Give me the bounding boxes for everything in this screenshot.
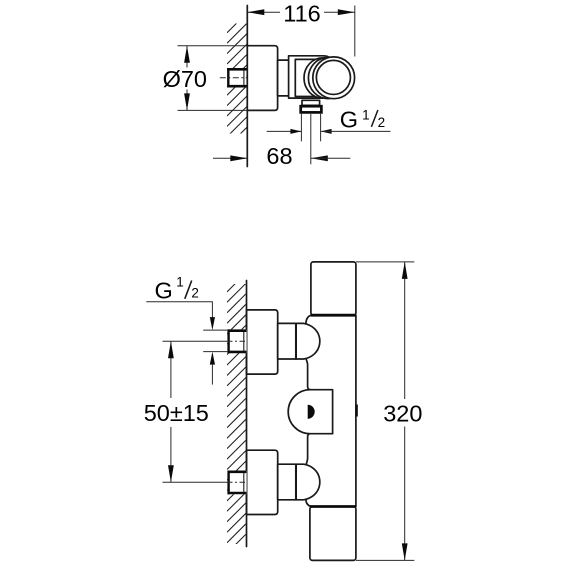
dimension 320 line + arrows xyxy=(404,262,406,399)
top inlet cone base edge (thick) xyxy=(295,323,297,360)
dimension 116 text xyxy=(280,3,324,22)
escutcheon flange (top view) xyxy=(247,46,277,111)
dimension 50±15 line + arrows xyxy=(170,341,172,398)
dimension 116 extension line (right) xyxy=(354,6,356,57)
svg-text:2: 2 xyxy=(378,115,386,130)
knob shoulder arc 2 xyxy=(308,57,347,98)
dimension Ø70 extension lines xyxy=(178,45,247,47)
dimension 116 arrow right xyxy=(338,9,355,15)
dimension 116 arrow left xyxy=(247,9,264,15)
mixer body mid section (front view) xyxy=(306,315,356,506)
dimension 116 line xyxy=(247,11,354,13)
nut centerline (top view) xyxy=(220,77,249,79)
valve backplate (top view) xyxy=(289,56,333,98)
top inlet escutcheon (front view) xyxy=(247,310,278,374)
outlet extension lines xyxy=(300,114,302,142)
svg-text:320: 320 xyxy=(383,400,422,426)
body cap separator thick line (top) xyxy=(311,314,356,317)
bottom inlet pipe (front view) xyxy=(278,464,296,500)
G 1/2 dimension arrows (top view) xyxy=(267,130,302,132)
wall line (top view) xyxy=(246,6,248,167)
outlet stub (top view) xyxy=(302,100,320,105)
svg-text:1: 1 xyxy=(362,107,370,122)
svg-text:1: 1 xyxy=(176,275,184,290)
dimension 320 text xyxy=(381,401,425,424)
knob outer circle xyxy=(313,57,355,99)
valve body (top view) xyxy=(295,59,330,96)
wall hatching (front view) xyxy=(227,273,246,564)
body top cap (front view) xyxy=(311,262,356,315)
dimension 68 line + arrows xyxy=(213,157,247,159)
outlet boss D-shape (front view) xyxy=(288,390,332,434)
union nut behind wall (top view) xyxy=(227,68,246,87)
bottom inlet union nut (front view) xyxy=(227,471,246,495)
top inlet pipe extension lines xyxy=(203,329,227,331)
wall line (front view) xyxy=(246,281,248,547)
svg-text:116: 116 xyxy=(283,0,320,26)
outlet centerline xyxy=(310,114,312,164)
bottom inlet centerline xyxy=(163,481,228,483)
connecting pipe (top view) xyxy=(278,60,290,96)
outlet thread nut (top view) xyxy=(301,106,322,112)
svg-text:2: 2 xyxy=(191,286,199,301)
bottom inlet escutcheon (front view) xyxy=(247,450,278,514)
top inlet union nut (front view) xyxy=(227,329,246,353)
top inlet cone dome (front view) xyxy=(296,323,320,359)
G 1/2 leader line (front view) xyxy=(146,302,212,318)
knob shoulder arc 1 xyxy=(304,58,342,98)
G 1/2 lower arrow (front view) xyxy=(210,352,215,365)
top inlet centerline xyxy=(163,340,228,342)
svg-text:G: G xyxy=(340,107,358,133)
knob inner circle xyxy=(316,60,350,94)
dimension 50±15 text xyxy=(143,401,210,424)
bottom inlet cone dome (front view) xyxy=(296,464,320,500)
top inlet pipe (front view) xyxy=(278,323,296,359)
dimension 320 extension lines xyxy=(356,261,414,263)
bottom inlet cone base edge (thick) xyxy=(295,464,297,501)
dimension Ø70 line + arrows xyxy=(186,46,188,111)
body bottom cap (front view) xyxy=(310,507,356,561)
svg-text:68: 68 xyxy=(266,143,292,169)
svg-text:50±15: 50±15 xyxy=(144,400,209,426)
outlet hole (black) xyxy=(308,405,315,419)
svg-text:Ø70: Ø70 xyxy=(163,66,207,92)
body cap separator thick line (bottom) xyxy=(310,505,356,508)
dimension Ø70 text xyxy=(162,68,209,90)
svg-text:G: G xyxy=(155,278,173,304)
wall hatching (top view) xyxy=(227,13,247,158)
right edge bump xyxy=(356,405,358,417)
dimension 68 text xyxy=(265,146,295,166)
